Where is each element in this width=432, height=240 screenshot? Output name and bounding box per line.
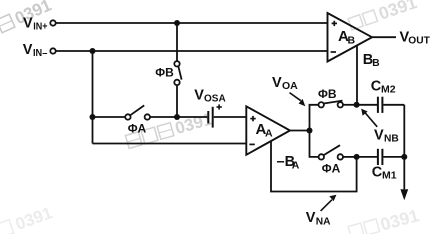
svg-text:A: A [265, 128, 273, 140]
wire to switch PHI-A1 [93, 116, 126, 118]
wire VIN+ rail [56, 22, 328, 24]
wire from PHI-A2 to node VNA side [343, 156, 357, 158]
voltage source VOSA [194, 88, 225, 128]
capacitor CM1 [372, 149, 397, 182]
wire op-amp AA output [290, 130, 310, 132]
svg-text:M1: M1 [382, 170, 397, 182]
svg-text:ΦB: ΦB [155, 66, 174, 80]
node VOA pointer [272, 75, 305, 107]
input terminal VIN+ [23, 15, 56, 32]
wire feedback -BA loop [271, 141, 357, 191]
svg-text:OSA: OSA [204, 94, 226, 105]
wire down to switch PHI-A2 [310, 131, 319, 157]
svg-text:A: A [292, 160, 300, 172]
node VNB pointer [361, 109, 399, 145]
node junction on VIN- rail [90, 48, 96, 54]
svg-text:M2: M2 [381, 84, 396, 96]
svg-text:V: V [194, 88, 204, 104]
wire from switch PHI-A1 to VOSA source [150, 116, 207, 118]
svg-text:ΦA: ΦA [128, 122, 147, 136]
svg-text:ΦA: ΦA [322, 161, 341, 175]
wire lower to op-amp AA - input [93, 143, 247, 145]
wire from VIN- junction down the left side [92, 51, 94, 144]
capacitor CM2 [371, 78, 396, 113]
node junction at (92.5,117) [90, 114, 96, 120]
node junction at (177,117) [174, 114, 180, 120]
svg-text:B: B [348, 34, 356, 46]
wire from node to capacitor CM1 [357, 156, 377, 158]
switch PHI-A2 [319, 145, 343, 175]
input terminal VIN- [23, 42, 56, 59]
wire VIN- rail [56, 50, 328, 52]
svg-text:0391: 0391 [378, 205, 421, 234]
node VNA pointer [306, 195, 337, 228]
wire from VOSA to op-amp AA + input [214, 116, 247, 118]
svg-text:V: V [306, 210, 316, 226]
node VNB junction [354, 102, 360, 108]
node junction right rail at CM1 [401, 154, 407, 160]
switch PHI-B1 (vertical) [155, 61, 181, 85]
switch PHI-A1 [125, 105, 150, 135]
svg-text:V: V [272, 75, 282, 91]
svg-text:IN–: IN– [33, 48, 48, 59]
svg-text:IN+: IN+ [33, 22, 47, 33]
wire BB from op-amp AB down to node VNB [356, 45, 358, 104]
wire right rail vertical [403, 105, 405, 190]
svg-text:NA: NA [316, 217, 331, 228]
node AA output junction [307, 128, 313, 134]
svg-text:OA: OA [282, 80, 298, 92]
wire from PHI-B2 to node VNB [343, 104, 357, 106]
svg-text:OUT: OUT [408, 35, 430, 46]
svg-text:V: V [374, 127, 384, 143]
op-amp AB [328, 13, 373, 62]
arrow down at right rail end [400, 189, 408, 200]
wire from node to capacitor CM2 [357, 104, 377, 106]
svg-text:NB: NB [384, 134, 399, 145]
svg-text:0391: 0391 [13, 203, 55, 234]
output label VOUT [400, 29, 431, 46]
switch PHI-B2 [318, 87, 343, 108]
svg-text:ΦB: ΦB [318, 87, 337, 101]
wire from switch PHI-B1 to node at capacitor rail [176, 85, 178, 117]
svg-text:V: V [23, 15, 33, 31]
wire from VIN+ junction down to switch PHI-B1 [176, 23, 178, 61]
wire from CM1 to right rail [383, 156, 404, 158]
svg-text:B: B [372, 58, 379, 69]
svg-text:V: V [23, 42, 33, 58]
wire op-amp AB output [372, 36, 396, 38]
label -BA [277, 154, 300, 171]
svg-text:0391: 0391 [376, 0, 420, 24]
wire up to switch PHI-B2 [310, 105, 319, 131]
op-amp AA [246, 106, 290, 155]
node junction on VIN+ rail [174, 20, 180, 26]
wire from CM2 to right rail [383, 104, 404, 106]
node junction at CM1 left [354, 154, 360, 160]
